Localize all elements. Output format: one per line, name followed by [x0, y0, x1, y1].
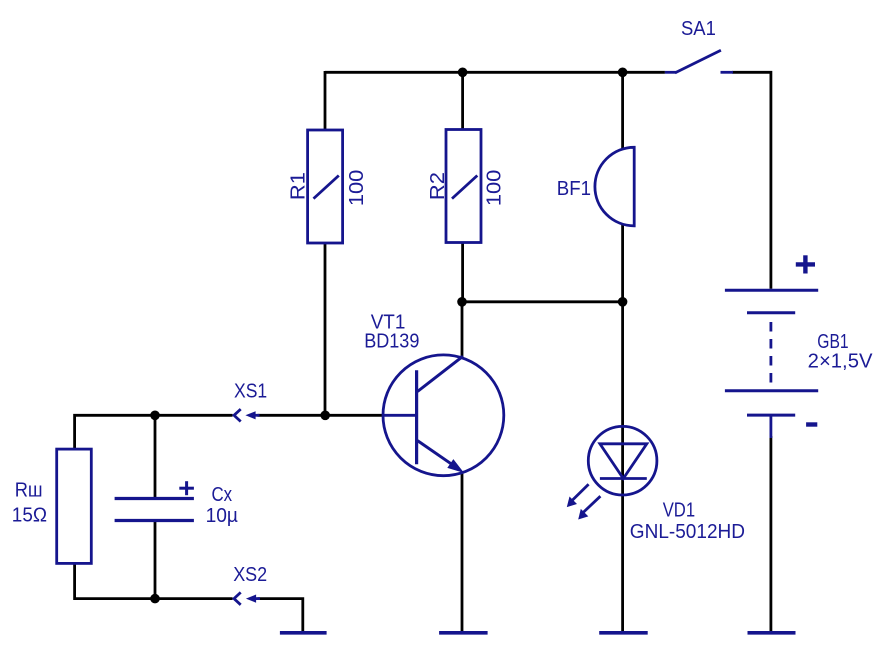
wire bottom rail — [155, 597, 233, 600]
svg-text:10µ: 10µ — [206, 505, 239, 527]
transistor VT1 — [364, 311, 504, 475]
connector XS2 — [233, 564, 267, 605]
svg-text:2×1,5V: 2×1,5V — [808, 350, 873, 372]
wire collector — [461, 301, 464, 359]
svg-text:SA1: SA1 — [681, 18, 716, 40]
node Cx bottom — [150, 594, 160, 604]
battery GB1 — [725, 255, 873, 438]
resistor R2 — [427, 130, 506, 243]
terminal bar battery — [748, 631, 796, 635]
wire BF1 top — [621, 71, 624, 150]
wire base rail left — [75, 415, 233, 449]
wire R1 top — [324, 71, 327, 131]
svg-text:R1: R1 — [287, 172, 309, 200]
wire battery bottom — [770, 436, 773, 633]
node mid right — [618, 297, 628, 307]
wire R2 bottom — [461, 242, 464, 302]
node mid left — [457, 297, 467, 307]
connector XS1 — [234, 381, 267, 422]
terminal bar XS2 stub — [280, 631, 327, 635]
svg-text:100: 100 — [346, 170, 368, 207]
resistor Rsh — [12, 449, 92, 563]
wire R1 bottom — [324, 243, 327, 416]
svg-text:BD139: BD139 — [364, 331, 419, 353]
node base R1 — [320, 411, 330, 421]
svg-text:100: 100 — [484, 170, 506, 207]
svg-text:XS2: XS2 — [233, 564, 267, 586]
terminal bar emitter — [439, 631, 488, 635]
wire top rail right to battery — [732, 72, 771, 288]
terminal bar LED — [599, 631, 648, 635]
svg-text:15Ω: 15Ω — [12, 505, 47, 527]
wire XS1 to base — [258, 414, 384, 417]
node Cx top — [150, 411, 160, 421]
switch SA1 — [665, 18, 733, 73]
svg-text:VD1: VD1 — [663, 500, 695, 522]
buzzer BF1 — [557, 147, 634, 226]
wire BF1 bottom — [621, 224, 624, 302]
svg-text:XS1: XS1 — [234, 381, 267, 403]
wire XS2 stub — [258, 599, 303, 633]
wire R2 top — [461, 71, 464, 131]
resistor R1 — [287, 130, 368, 243]
capacitor Cx — [115, 481, 239, 527]
svg-text:GNL-5012HD: GNL-5012HD — [630, 521, 745, 543]
wire emitter — [461, 472, 464, 633]
wire Cx bottom — [154, 521, 157, 599]
LED VD1 — [567, 426, 745, 543]
wire Rsh bottom — [75, 563, 155, 599]
wire LED column — [621, 302, 624, 633]
node top BF1 — [618, 68, 628, 78]
svg-text:Rш: Rш — [15, 479, 43, 501]
svg-text:BF1: BF1 — [557, 178, 591, 200]
wire mid rail — [462, 300, 623, 303]
wire top rail left — [325, 71, 665, 74]
wire Cx top — [154, 415, 157, 498]
svg-text:Cx: Cx — [212, 484, 233, 506]
svg-text:R2: R2 — [427, 172, 449, 200]
node top R2 — [458, 68, 468, 78]
